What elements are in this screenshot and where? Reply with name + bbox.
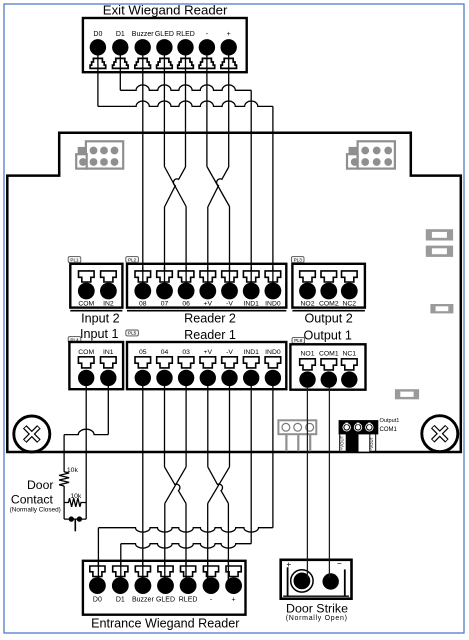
resistor 10k (parallel)	[64, 493, 86, 507]
svg-text:05: 05	[139, 349, 147, 356]
wire Reader1 03 to Entrance GLED (hop at crossing)	[165, 378, 186, 586]
svg-text:+: +	[227, 31, 231, 38]
wire Reader1 IND1 to Entrance D1	[121, 378, 251, 586]
svg-text:Output 1: Output 1	[304, 329, 352, 343]
svg-text:COM: COM	[78, 301, 94, 308]
header J4 (3-pin, output) with +VOUT/-VOUT legs	[339, 421, 378, 453]
wire Reader1 04 to Entrance RLED	[165, 378, 187, 586]
entrance reader terminal labels	[93, 597, 236, 604]
svg-text:IN2: IN2	[103, 301, 114, 308]
terminal block Output 1 (PL6)	[290, 344, 365, 389]
svg-text:IND1: IND1	[243, 349, 259, 356]
svg-text:D0: D0	[93, 31, 102, 38]
svg-text:-: -	[206, 31, 209, 38]
door strike + terminal	[291, 570, 313, 592]
resistor 10k (series)	[59, 467, 78, 486]
svg-text:Exit Wiegand Reader: Exit Wiegand Reader	[103, 3, 228, 18]
svg-text:-: -	[210, 597, 213, 604]
svg-text:-V: -V	[226, 301, 233, 308]
svg-text:-V: -V	[226, 349, 233, 356]
Output 1 title	[304, 329, 352, 343]
svg-text:RLED: RLED	[179, 597, 198, 604]
SMD resistor R4	[395, 389, 419, 399]
wire Reader1 -V to Entrance - (hop at crossing)	[208, 378, 230, 586]
svg-text:COM1: COM1	[380, 427, 398, 433]
wire Output1 NO1 to Door Strike +	[306, 387, 308, 578]
svg-text:Door Strike: Door Strike	[286, 602, 348, 616]
mounting hole left	[14, 416, 50, 452]
PL4 designator	[68, 337, 81, 343]
svg-text:NO2: NO2	[301, 301, 315, 308]
svg-text:IND0: IND0	[265, 349, 281, 356]
svg-text:IND0: IND0	[265, 301, 281, 308]
entrance reader wire crimps	[90, 566, 241, 577]
PL5 designator	[126, 330, 139, 336]
svg-text:Reader 2: Reader 2	[184, 311, 236, 325]
svg-text:10k: 10k	[67, 467, 79, 474]
connector J2 (8-pin, right)	[347, 141, 395, 168]
svg-text:+: +	[232, 597, 236, 604]
svg-text:03: 03	[182, 349, 190, 356]
svg-text:+VOUT: +VOUT	[339, 435, 344, 450]
svg-text:D1: D1	[116, 597, 125, 604]
svg-text:D1: D1	[116, 31, 125, 38]
mounting hole right	[422, 416, 458, 452]
wire GLED to Reader2 06	[164, 47, 186, 291]
svg-text:06: 06	[182, 301, 190, 308]
PL2 designator	[126, 257, 139, 263]
svg-text:08: 08	[139, 301, 147, 308]
svg-text:Reader 1: Reader 1	[184, 328, 236, 342]
Output1 / COM1 labels	[380, 418, 400, 433]
svg-text:GLED: GLED	[156, 597, 175, 604]
Door Contact label	[10, 478, 61, 513]
connector J1 (8-pin, left)	[76, 141, 123, 168]
svg-text:PL1: PL1	[70, 257, 79, 262]
wire Output1 COM1 to Door Strike -	[328, 387, 330, 578]
door contact switch (NC) with actuator	[64, 516, 86, 531]
svg-text:COM: COM	[78, 349, 94, 356]
SMD resistor R2	[426, 246, 453, 257]
svg-text:Buzzer: Buzzer	[132, 597, 154, 604]
exit reader wire crimps	[90, 58, 236, 68]
wire Buzzer to Reader2 08	[142, 47, 144, 291]
svg-text:(Normally Open): (Normally Open)	[286, 615, 348, 622]
Exit Wiegand Reader box	[83, 18, 247, 72]
svg-text:10k: 10k	[70, 493, 82, 500]
entrance reader terminal circles	[89, 577, 242, 594]
PL6 designator	[292, 337, 305, 343]
wire D0 to Reader2 IND0	[98, 47, 273, 291]
door strike housing	[281, 559, 352, 599]
svg-text:PL6: PL6	[294, 338, 303, 343]
wire Reader1 IND0 to Entrance D0	[98, 378, 273, 586]
terminal block Reader 2 (PL2)	[127, 264, 286, 311]
wire segments entering Reader 2 terminals	[143, 267, 273, 292]
exit reader terminal labels D0 D1 Buzzer GLED RLED - +	[93, 31, 230, 38]
wire segments entering Entrance reader terminals	[98, 562, 228, 586]
svg-text:NO1: NO1	[301, 350, 315, 357]
svg-text:Door: Door	[27, 478, 53, 492]
svg-text:Entrance Wiegand Reader: Entrance Wiegand Reader	[91, 617, 239, 631]
svg-text:+: +	[286, 559, 291, 569]
svg-text:+V: +V	[204, 301, 213, 308]
terminal block Output 2 (PL3)	[292, 264, 365, 311]
svg-text:PL5: PL5	[128, 331, 137, 336]
terminal block Reader 1 (PL5)	[127, 342, 286, 389]
SMD resistor R3	[430, 304, 453, 313]
SMD resistor R1	[426, 229, 453, 240]
Entrance Wiegand Reader box	[83, 561, 246, 615]
wire - to Reader2 -V	[207, 47, 230, 291]
wire D1 to Reader2 IND1	[120, 47, 251, 291]
svg-text:Contact: Contact	[11, 493, 54, 507]
svg-text:+V: +V	[204, 349, 213, 356]
svg-text:IN1: IN1	[103, 349, 114, 356]
Reader 2 title	[184, 311, 236, 325]
exit reader terminal circles	[90, 39, 237, 55]
svg-text:Input 1: Input 1	[80, 327, 119, 341]
svg-text:Input 2: Input 2	[81, 311, 120, 325]
wire Input1 COM down to door contact	[85, 378, 87, 519]
Entrance Wiegand Reader title	[91, 617, 239, 631]
wire Input1 IN1 to resistor chain (hop over COM)	[64, 378, 108, 472]
svg-text:GLED: GLED	[155, 31, 174, 38]
svg-text:Output 2: Output 2	[304, 311, 352, 325]
svg-text:04: 04	[161, 349, 169, 356]
Door Strike label	[286, 602, 348, 622]
svg-text:RLED: RLED	[176, 31, 195, 38]
svg-text:PL2: PL2	[128, 257, 137, 262]
header J3 (3-pin, gray)	[278, 420, 316, 451]
wire Reader1 +V to Entrance +	[208, 378, 229, 586]
svg-text:07: 07	[161, 301, 169, 308]
PL1 designator	[68, 257, 81, 263]
svg-text:PL3: PL3	[294, 257, 303, 262]
svg-text:NC2: NC2	[342, 301, 356, 308]
svg-text:(Normally Closed): (Normally Closed)	[10, 507, 61, 514]
svg-text:Buzzer: Buzzer	[132, 31, 154, 38]
PL3 designator	[291, 257, 304, 263]
wire + to Reader2 +V (hop at crossing)	[208, 47, 229, 291]
svg-text:D0: D0	[93, 597, 102, 604]
Reader 1 title	[184, 328, 236, 342]
wire RLED to Reader2 07 (hop at crossing)	[165, 47, 186, 291]
svg-text:-VOUT: -VOUT	[369, 436, 374, 450]
wire resistor to switch	[63, 486, 65, 519]
Output 2 title	[304, 311, 352, 325]
door strike - terminal	[323, 573, 339, 589]
Input 1 title	[80, 327, 119, 341]
svg-text:IND1: IND1	[243, 301, 259, 308]
svg-text:Output1: Output1	[380, 418, 400, 424]
terminal block Input 2 (PL1)	[70, 264, 122, 311]
svg-text:NC1: NC1	[342, 350, 356, 357]
terminal block Input 1 (PL4)	[69, 342, 123, 389]
svg-text:COM2: COM2	[319, 301, 339, 308]
svg-text:COM1: COM1	[319, 350, 339, 357]
svg-text:−: −	[337, 559, 342, 569]
controller board outline	[7, 133, 461, 452]
Input 2 title	[81, 311, 120, 325]
wire Reader1 05 to Entrance Buzzer	[142, 378, 144, 586]
